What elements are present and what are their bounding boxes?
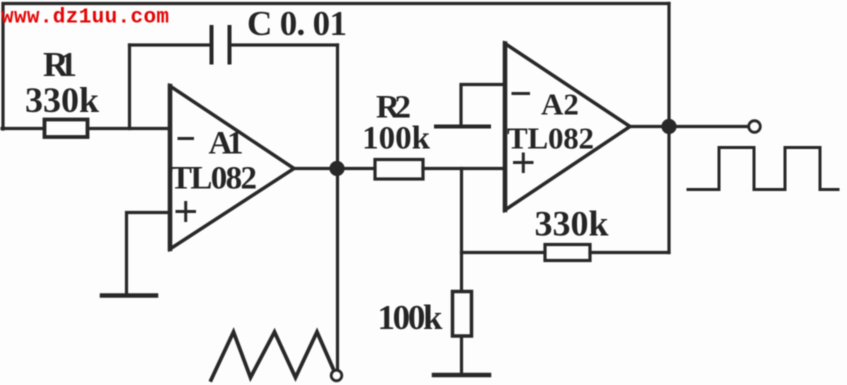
resistor R2 (375, 160, 423, 180)
wire right feedback vertical (667, 4, 670, 253)
resistor 100k (to ground) (453, 292, 472, 337)
wire feedback resistor 330k left lead (462, 251, 546, 254)
square wave symbol (688, 148, 838, 190)
wire main vertical (cap to A1 output node to triangle-wave terminal) (336, 45, 339, 371)
wire A2 output to terminal (669, 125, 749, 128)
ground (A2 inverting input) (436, 125, 489, 129)
triangle wave output terminal (331, 370, 342, 381)
ground (100k resistor) (434, 373, 489, 378)
capacitor C 0.01 plate right (228, 27, 232, 63)
node A1 output junction dot (329, 161, 344, 176)
wire capacitor branch riser (128, 45, 131, 129)
svg-text:www.dz1uu.com: www.dz1uu.com (1, 7, 169, 30)
triangle wave symbol (211, 332, 334, 380)
wire A1 non-inverting input to ground (127, 213, 171, 294)
op-amp A1 minus marker (179, 137, 193, 140)
svg-text:A1: A1 (209, 126, 244, 162)
wire 100k to ground (460, 336, 463, 373)
op-amp A2 minus marker (513, 92, 529, 95)
wire A2 inverting input to ground (461, 85, 505, 126)
resistor 330k (A2 feedback) (545, 245, 590, 261)
op-amp A1 plus marker (177, 203, 195, 221)
ground (A1 non-inverting input) (102, 293, 156, 298)
op-amp A2 body (505, 44, 630, 211)
wire top border (A2 output feedback to R1) (3, 4, 669, 130)
svg-text:C 0. 01: C 0. 01 (247, 4, 347, 43)
wire A2 output (630, 125, 669, 128)
op-amp A2 plus marker (515, 154, 533, 172)
wire R1 left lead (2, 127, 44, 130)
wire capacitor left lead (130, 43, 211, 46)
svg-text:TL082: TL082 (170, 161, 257, 197)
svg-text:A2: A2 (541, 87, 579, 122)
svg-text:R1: R1 (43, 45, 77, 84)
wire capacitor right lead (232, 43, 338, 46)
node A2 output junction dot (661, 119, 676, 134)
wire A1 output node to R2 (337, 167, 375, 170)
wire feedback resistor 330k right lead (590, 251, 669, 254)
resistor R1 (45, 120, 88, 138)
wire R1 to A1 inverting input (88, 127, 171, 130)
wire feedback node riser (460, 169, 463, 292)
svg-text:330k: 330k (25, 80, 99, 120)
svg-text:100k: 100k (362, 121, 431, 157)
wire R2 to A2 non-inverting input (423, 167, 505, 170)
svg-text:100k: 100k (378, 298, 444, 337)
capacitor C 0.01 plate left (210, 27, 214, 63)
wire A1 output (294, 167, 337, 170)
svg-text:TL082: TL082 (507, 121, 594, 156)
op-amp A1 body (170, 86, 294, 249)
output terminal (square wave) (749, 121, 761, 133)
svg-text:330k: 330k (534, 204, 608, 244)
